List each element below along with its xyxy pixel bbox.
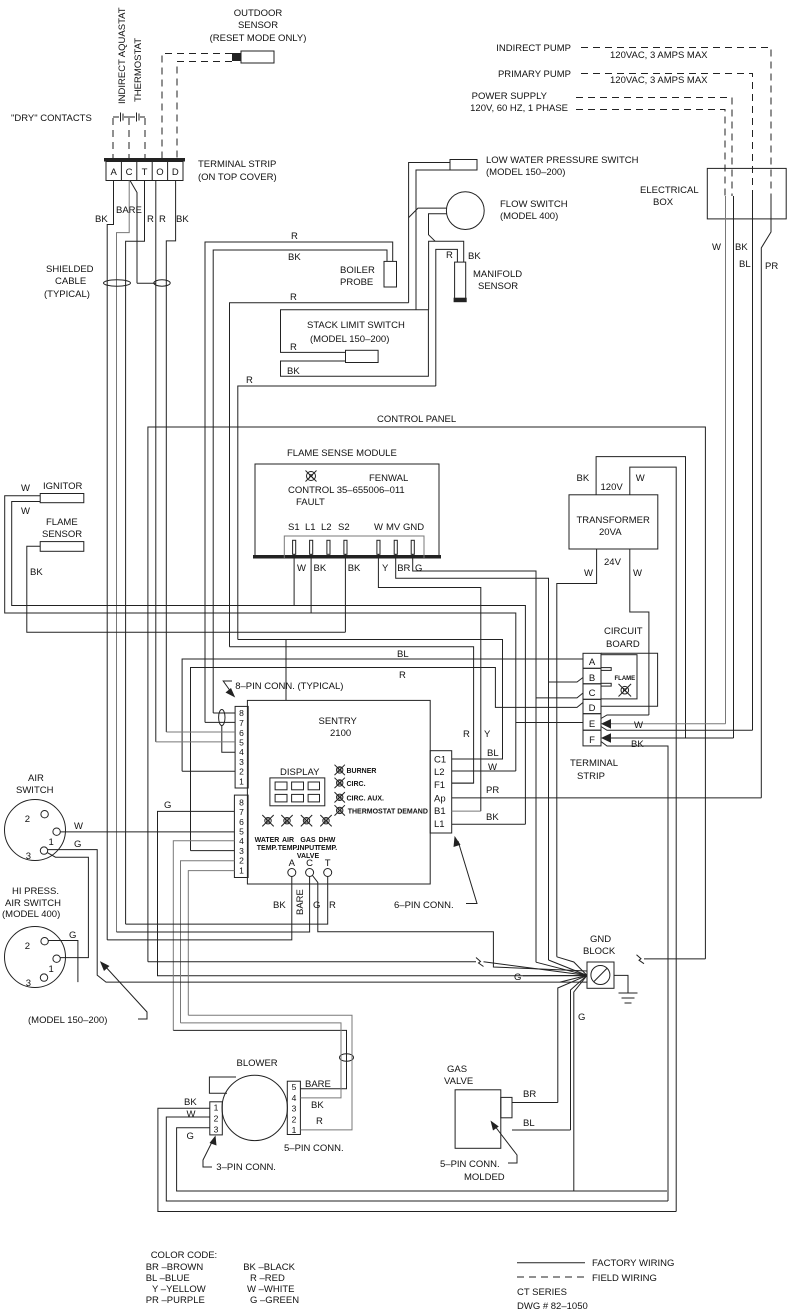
boiler BK wire: [213, 250, 387, 713]
svg-text:PR: PR: [765, 261, 778, 272]
svg-text:S2: S2: [338, 522, 350, 533]
svg-text:FACTORY WIRING: FACTORY WIRING: [592, 1258, 674, 1269]
svg-text:8: 8: [239, 797, 244, 807]
svg-text:W: W: [297, 563, 306, 574]
svg-text:(RESET MODE ONLY): (RESET MODE ONLY): [210, 33, 307, 44]
svg-text:8: 8: [239, 708, 244, 718]
svg-text:THERMOSTAT: THERMOSTAT: [133, 38, 144, 102]
wire into conn1 pin5 (O wire): [156, 741, 235, 743]
svg-text:W: W: [634, 720, 643, 731]
gas valve BR wire: [512, 1102, 558, 1104]
svg-text:BK: BK: [176, 214, 189, 225]
svg-text:BK: BK: [631, 739, 644, 750]
svg-text:1: 1: [214, 1103, 219, 1113]
wire F bottom to blower loop: [601, 742, 668, 1202]
svg-text:FLAME: FLAME: [46, 517, 78, 528]
svg-text:GAS: GAS: [447, 1064, 467, 1075]
hi press air switch: [2, 886, 61, 920]
svg-text:24V: 24V: [604, 557, 622, 568]
svg-text:F: F: [589, 735, 595, 746]
svg-text:O: O: [156, 167, 163, 178]
svg-text:R: R: [246, 375, 253, 386]
wire into conn1 pin8 (boiler BK): [213, 712, 235, 714]
svg-text:L1: L1: [305, 522, 316, 533]
wire BK from electrical box down: [733, 196, 735, 738]
wire BL from electrical box down: [752, 196, 754, 730]
model 150-200 label and arrow: [28, 961, 147, 1026]
svg-text:2: 2: [239, 856, 244, 866]
svg-text:R: R: [290, 292, 297, 303]
svg-text:4: 4: [239, 747, 244, 757]
wire E mid arrow from electrical box W: [609, 723, 726, 725]
svg-text:120V, 60 HZ, 1 PHASE: 120V, 60 HZ, 1 PHASE: [470, 103, 568, 114]
terminal B: [583, 668, 601, 684]
stack limit switch: [281, 310, 429, 376]
svg-text:INDIRECT PUMP: INDIRECT PUMP: [496, 43, 571, 54]
gas valve BL wire: [512, 1129, 571, 1131]
8-pin connector 2: [234, 795, 248, 877]
thermostat demand lamp: [335, 805, 345, 815]
svg-text:PROBE: PROBE: [340, 277, 373, 288]
svg-text:MV: MV: [386, 522, 401, 533]
svg-text:TEMP.: TEMP.: [278, 845, 299, 852]
svg-text:TEMP.: TEMP.: [317, 845, 338, 852]
5-pin pin4 BK wire up: [181, 1023, 342, 1098]
svg-text:G: G: [337, 781, 342, 787]
svg-text:BL –BLUE: BL –BLUE: [146, 1273, 190, 1284]
svg-text:BK: BK: [314, 563, 327, 574]
electrical box: [640, 168, 786, 219]
5-pin pin1 R wire up: [188, 1015, 352, 1130]
lead 2 from low water pressure switch: [416, 170, 450, 310]
circ lamp: [335, 778, 345, 788]
svg-text:6: 6: [239, 817, 244, 827]
svg-text:8–PIN CONN. (TYPICAL): 8–PIN CONN. (TYPICAL): [235, 681, 343, 692]
svg-text:(MODEL 400): (MODEL 400): [2, 909, 60, 920]
svg-text:E: E: [589, 719, 595, 730]
svg-text:FAULT: FAULT: [296, 497, 325, 508]
wire L1 row: [452, 823, 526, 825]
stack R wire to sentry F1: [230, 647, 474, 783]
svg-text:W: W: [374, 522, 383, 533]
shield ellipse 2: [154, 280, 170, 286]
pin MV: [394, 540, 397, 554]
svg-text:G: G: [337, 768, 342, 774]
svg-text:G: G: [337, 796, 342, 802]
svg-text:G: G: [415, 563, 422, 574]
svg-text:5: 5: [239, 827, 244, 837]
svg-text:2100: 2100: [330, 728, 351, 739]
svg-text:G: G: [578, 1012, 585, 1023]
svg-text:L2: L2: [434, 767, 445, 778]
wire into conn1 pin2 (BL): [182, 770, 235, 772]
dashed drop to terminal T: [144, 118, 146, 158]
dhw temp lamp: [320, 815, 331, 826]
air switch pin3 G wire a: [48, 850, 587, 983]
field wiring dashed: indirect pump: [581, 48, 771, 197]
circ aux lamp: [335, 792, 345, 802]
manifold BK wire: [429, 241, 464, 309]
wire L2 row: [452, 770, 516, 772]
svg-text:BK: BK: [486, 812, 499, 823]
svg-text:IGNITOR: IGNITOR: [43, 481, 83, 492]
stack R wire upper: [230, 303, 409, 647]
svg-text:C: C: [306, 858, 313, 869]
svg-text:THERMOSTAT DEMAND: THERMOSTAT DEMAND: [348, 808, 428, 815]
dry contact 2: [129, 113, 145, 122]
flame module pin labels: [288, 522, 424, 533]
svg-text:INDIRECT AQUASTAT: INDIRECT AQUASTAT: [117, 7, 128, 104]
svg-text:F1: F1: [434, 780, 445, 791]
ignitor lead 2 wire to W pin and L1: [12, 502, 526, 825]
svg-text:(MODEL 150–200): (MODEL 150–200): [310, 334, 389, 345]
sentry 2100: [247, 700, 430, 884]
svg-text:BK: BK: [273, 900, 286, 911]
transformer 24V right W wire: [630, 549, 649, 715]
svg-text:PR –PURPLE: PR –PURPLE: [146, 1295, 205, 1306]
svg-text:BK: BK: [468, 251, 481, 262]
svg-text:W: W: [187, 1109, 196, 1120]
svg-text:FLOW SWITCH: FLOW SWITCH: [500, 199, 568, 210]
svg-text:AIR: AIR: [28, 773, 44, 784]
svg-text:R: R: [309, 475, 314, 481]
svg-text:A: A: [589, 657, 596, 668]
svg-text:120V: 120V: [601, 482, 624, 493]
svg-text:D: D: [172, 167, 179, 178]
svg-text:CIRC.: CIRC.: [347, 781, 366, 788]
svg-text:BL: BL: [397, 649, 409, 660]
svg-text:S1: S1: [288, 522, 300, 533]
transformer W 120V wire: [630, 467, 676, 1211]
svg-text:G: G: [69, 930, 76, 941]
svg-text:DISPLAY: DISPLAY: [280, 767, 320, 778]
wire conn2 pin4 down: [173, 841, 234, 1031]
svg-text:Ap: Ap: [434, 794, 446, 805]
pin L2: [327, 540, 330, 554]
svg-text:5–PIN CONN.: 5–PIN CONN.: [440, 1159, 500, 1170]
8-pin conn label and arrow: [223, 681, 343, 698]
svg-text:(ON TOP COVER): (ON TOP COVER): [198, 172, 277, 183]
svg-text:POWER SUPPLY: POWER SUPPLY: [472, 91, 548, 102]
svg-text:PRIMARY PUMP: PRIMARY PUMP: [498, 69, 571, 80]
flow switch lead 2: [429, 214, 447, 242]
svg-text:R: R: [463, 729, 470, 740]
wire Ap row to PR: [452, 797, 762, 799]
wire from terminal T down (R): [126, 181, 145, 925]
shield ellipse on BARE wire: [340, 1054, 354, 1062]
bare shield wire from terminal C: [130, 181, 137, 284]
svg-text:A: A: [289, 858, 296, 869]
svg-text:T: T: [325, 858, 331, 869]
L1 pin drop wire: [310, 554, 312, 613]
6-pin connector column: [430, 751, 452, 833]
svg-text:CONTROL 35–655006–011: CONTROL 35–655006–011: [288, 485, 405, 496]
svg-text:AIR SWITCH: AIR SWITCH: [5, 898, 61, 909]
svg-text:3: 3: [239, 846, 244, 856]
svg-text:TERMINAL STRIP: TERMINAL STRIP: [198, 159, 276, 170]
svg-text:2: 2: [292, 1114, 297, 1124]
svg-text:BK: BK: [95, 214, 108, 225]
svg-text:A: A: [111, 167, 118, 178]
shield ellipse on pin8 wire: [219, 710, 225, 726]
wire from terminal D down (BK): [166, 181, 175, 733]
svg-text:SENSOR: SENSOR: [238, 20, 278, 31]
svg-text:FLAME SENSE MODULE: FLAME SENSE MODULE: [287, 448, 397, 459]
svg-text:4: 4: [239, 836, 244, 846]
svg-text:MOLDED: MOLDED: [464, 1172, 505, 1183]
svg-text:CT SERIES: CT SERIES: [517, 1287, 567, 1298]
svg-text:R: R: [290, 342, 297, 353]
BR pin wire to circuit board B: [396, 554, 549, 960]
svg-text:TEMP.: TEMP.: [257, 845, 278, 852]
break symbol left: [476, 958, 484, 967]
svg-text:B1: B1: [434, 806, 446, 817]
sentry terminal A: [288, 858, 296, 877]
3-pin connector: [210, 1102, 223, 1135]
flow switch: [446, 192, 567, 230]
svg-text:2: 2: [25, 814, 30, 825]
fault lamp symbol: [306, 471, 317, 482]
terminal D: [583, 699, 601, 713]
flame lamp symbol on circuit board: [619, 684, 632, 697]
wire conn2 pin2 down: [181, 861, 235, 1023]
sentry T wire to left bundle: [126, 877, 328, 925]
svg-text:120VAC, 3 AMPS MAX: 120VAC, 3 AMPS MAX: [610, 50, 708, 61]
svg-text:R: R: [623, 689, 628, 695]
svg-text:CIRCUIT: CIRCUIT: [604, 626, 643, 637]
blower: [209, 1058, 287, 1141]
svg-text:BOILER: BOILER: [340, 265, 375, 276]
shield drain to pin4: [222, 726, 235, 753]
flame sensor: [40, 517, 84, 551]
svg-text:GAS: GAS: [300, 837, 316, 844]
burner lamp: [335, 765, 345, 775]
manifold R wire: [436, 249, 458, 386]
svg-text:GND: GND: [403, 522, 424, 533]
gnd block: [583, 934, 616, 988]
boiler probe: [340, 261, 397, 288]
svg-text:TERMINAL: TERMINAL: [570, 758, 618, 769]
svg-text:BARE: BARE: [295, 889, 306, 915]
gnd fan from air switch G: [560, 975, 587, 982]
dashed drop to terminal A: [112, 118, 114, 158]
S2 pin drop wire: [344, 554, 346, 632]
svg-text:BLOWER: BLOWER: [237, 1058, 278, 1069]
factory wiring legend: [517, 1258, 674, 1269]
svg-text:BLOCK: BLOCK: [583, 946, 616, 957]
svg-text:CONTROL PANEL: CONTROL PANEL: [377, 414, 456, 425]
svg-text:G: G: [266, 819, 271, 825]
svg-text:W: W: [633, 568, 642, 579]
svg-text:MANIFOLD: MANIFOLD: [473, 269, 522, 280]
wire E bottom from electrical box BL: [601, 727, 753, 731]
svg-text:COLOR CODE:: COLOR CODE:: [151, 1250, 218, 1261]
svg-text:3: 3: [292, 1104, 297, 1114]
svg-text:CIRC. AUX.: CIRC. AUX.: [347, 795, 385, 802]
terminal F: [583, 730, 601, 746]
ground symbol: [614, 975, 638, 1003]
svg-text:ELECTRICAL: ELECTRICAL: [640, 185, 699, 196]
flame sense module: [253, 448, 441, 559]
transformer: [569, 495, 658, 549]
svg-text:G: G: [313, 900, 320, 911]
wire from terminal C down (shielded): [117, 181, 130, 933]
svg-text:W: W: [74, 821, 83, 832]
manifold sensor: [454, 262, 523, 302]
svg-text:1: 1: [292, 1125, 297, 1135]
wire F mid arrow from electrical box BK: [609, 737, 734, 739]
svg-text:120VAC, 3 AMPS MAX: 120VAC, 3 AMPS MAX: [610, 75, 708, 86]
gas valve BL riser: [571, 975, 588, 1130]
sentry terminal T: [324, 858, 332, 877]
pin L1: [310, 540, 313, 554]
svg-text:6–PIN CONN.: 6–PIN CONN.: [394, 900, 454, 911]
svg-text:SENSOR: SENSOR: [42, 529, 82, 540]
svg-text:(TYPICAL): (TYPICAL): [44, 289, 90, 300]
svg-text:R: R: [291, 231, 298, 242]
wire W from electrical box down: [725, 196, 727, 724]
wrap join to G riser: [574, 1190, 667, 1192]
svg-text:G: G: [324, 819, 329, 825]
wire into B from BR drop: [549, 678, 584, 683]
svg-text:7: 7: [239, 807, 244, 817]
svg-text:C1: C1: [434, 755, 446, 766]
svg-text:"DRY" CONTACTS: "DRY" CONTACTS: [11, 113, 92, 124]
svg-text:FENWAL: FENWAL: [369, 473, 408, 484]
ignitor lead 1 wire to L1 drop: [5, 496, 516, 771]
left ground wire with break: [148, 961, 476, 963]
svg-text:FIELD WIRING: FIELD WIRING: [592, 1273, 657, 1284]
svg-text:BL: BL: [487, 748, 499, 759]
svg-text:G: G: [337, 809, 342, 815]
svg-text:(MODEL 150–200): (MODEL 150–200): [486, 167, 565, 178]
boiler R wire: [205, 242, 393, 722]
flow switch lead 1 with junction diagonal: [409, 208, 447, 218]
outdoor sensor label: [210, 8, 307, 44]
svg-text:SENSOR: SENSOR: [478, 281, 518, 292]
svg-text:R: R: [147, 214, 154, 225]
svg-text:5–PIN CONN.: 5–PIN CONN.: [284, 1143, 344, 1154]
svg-text:T: T: [142, 167, 148, 178]
wire into C from G drop: [536, 693, 583, 698]
svg-text:3–PIN CONN.: 3–PIN CONN.: [216, 1162, 276, 1173]
svg-text:BK: BK: [184, 1097, 197, 1108]
wire into conn1 pin7 (boiler R): [205, 721, 235, 723]
svg-text:W: W: [636, 473, 645, 484]
svg-text:BK: BK: [311, 1100, 324, 1111]
lamp captions: [255, 837, 338, 860]
flame relay box on circuit board: [601, 655, 637, 699]
lead 1 from low water pressure switch: [409, 163, 450, 303]
svg-text:BK: BK: [577, 473, 590, 484]
transformer BK 120V wire: [596, 457, 685, 738]
svg-text:BURNER: BURNER: [347, 768, 377, 775]
wire conn2 pin7 G down: [158, 811, 588, 975]
3-pin conn label and arrow: [203, 1136, 276, 1174]
manifold R wire to sentry C1: [238, 640, 503, 760]
svg-text:R: R: [446, 250, 453, 261]
svg-text:BR: BR: [397, 563, 410, 574]
svg-text:3: 3: [26, 851, 31, 862]
wire conn2 pin1 down: [188, 871, 234, 1016]
svg-text:Y: Y: [484, 729, 491, 740]
water temp lamp: [262, 815, 273, 826]
display: [270, 767, 325, 806]
svg-text:1: 1: [239, 776, 244, 786]
svg-text:G: G: [74, 839, 81, 850]
Y pin wire to B1: [378, 554, 480, 811]
sentry C G wire to gnd: [313, 876, 588, 972]
sentry C bare wire to left bundle: [117, 877, 310, 933]
branch to sentry box top: [285, 640, 287, 701]
5-pin conn molded label and arrow: [440, 1121, 517, 1184]
svg-text:SHIELDED: SHIELDED: [46, 264, 94, 275]
svg-text:W: W: [712, 242, 721, 253]
ignitor: [40, 481, 84, 503]
wire B1 row: [452, 810, 481, 812]
dry contact 1: [113, 113, 129, 122]
pin S2: [344, 540, 347, 554]
5-pin pin5 BARE wire up: [173, 1030, 346, 1088]
3-pin pin2 W wire to bottom loop: [166, 1117, 668, 1201]
air temp lamp: [281, 815, 292, 826]
svg-text:D: D: [589, 703, 596, 714]
svg-text:C: C: [589, 688, 596, 699]
gas valve BR riser: [558, 975, 587, 1102]
svg-text:3: 3: [214, 1124, 219, 1134]
S1 pin drop wire: [293, 554, 295, 605]
shield ellipse 1: [104, 280, 131, 286]
svg-text:20VA: 20VA: [599, 527, 622, 538]
svg-text:1: 1: [239, 865, 244, 875]
gnd fan diagonal top: [557, 957, 587, 976]
3-pin pin1 BK wire to bottom loop: [158, 1108, 676, 1211]
dashed drop to terminal C: [128, 118, 130, 158]
svg-text:DHW: DHW: [319, 837, 336, 844]
svg-text:Y: Y: [382, 563, 389, 574]
label G (sentry C wire): [311, 897, 322, 909]
svg-text:3: 3: [239, 757, 244, 767]
field wiring dashed: power supply line 1: [576, 98, 732, 197]
field wiring legend: [517, 1273, 657, 1284]
svg-text:SWITCH: SWITCH: [16, 785, 54, 796]
svg-text:(MODEL 400): (MODEL 400): [500, 211, 558, 222]
svg-text:G: G: [164, 800, 171, 811]
svg-text:BL: BL: [739, 259, 751, 270]
svg-text:W: W: [21, 506, 30, 517]
svg-text:BK: BK: [348, 563, 361, 574]
wire E top to 24V: [601, 715, 649, 719]
svg-text:HI PRESS.: HI PRESS.: [12, 886, 59, 897]
field wiring dashed: sensor to terminal O: [162, 54, 232, 159]
svg-text:G: G: [514, 972, 521, 983]
flame sensor wire to S2 pin: [27, 546, 346, 632]
gas valve: [444, 1064, 512, 1148]
svg-text:1: 1: [49, 964, 54, 975]
svg-text:5: 5: [239, 738, 244, 748]
svg-text:L2: L2: [321, 522, 332, 533]
svg-text:C: C: [126, 167, 133, 178]
wire into E left: [516, 722, 583, 724]
air switch: [5, 773, 66, 862]
svg-text:B: B: [589, 673, 595, 684]
svg-text:VALVE: VALVE: [444, 1076, 473, 1087]
svg-text:G: G: [187, 1131, 194, 1142]
gas input valve lamp: [301, 815, 312, 826]
svg-text:4: 4: [292, 1093, 297, 1103]
svg-text:R –RED: R –RED: [250, 1273, 285, 1284]
sentry A wire to left bundle: [107, 877, 292, 940]
